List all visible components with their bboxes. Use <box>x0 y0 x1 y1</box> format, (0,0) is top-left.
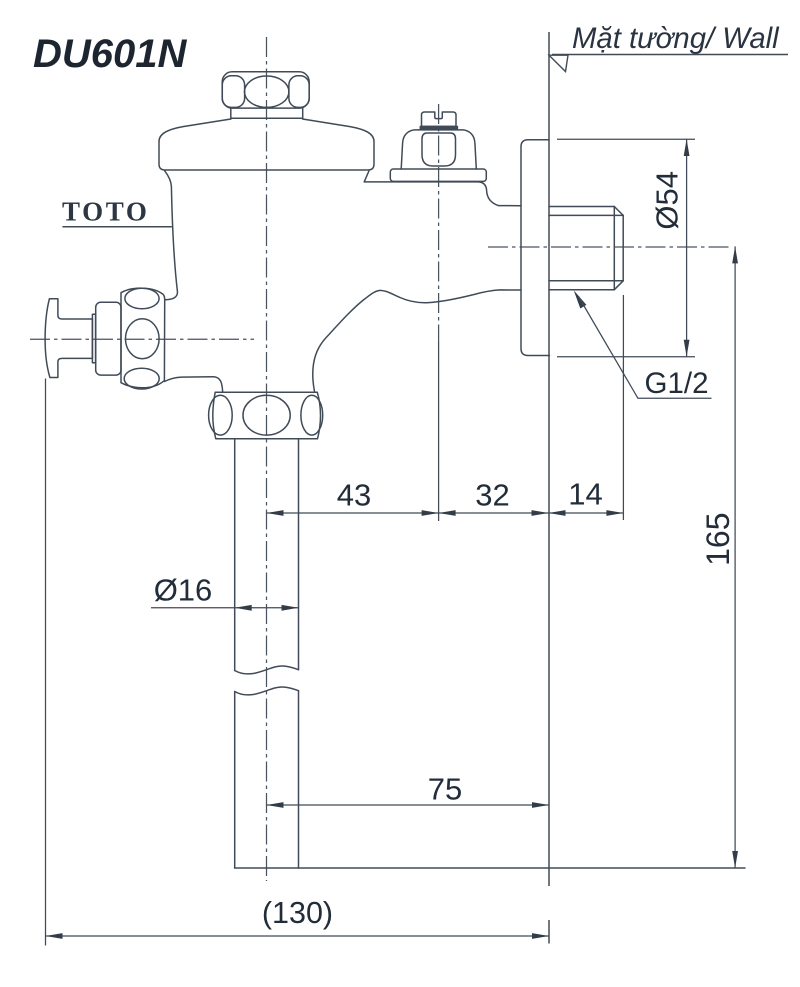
dim O54 vertical line <box>686 139 688 357</box>
arrow 43 left <box>267 510 284 516</box>
button valve barrel <box>121 288 165 388</box>
barrel bottom ellipse <box>124 368 159 389</box>
washer under hex nut <box>231 108 303 118</box>
lock nut outline <box>213 392 321 439</box>
dim line 43-32-14 <box>267 512 624 514</box>
hex nut right facet <box>289 76 309 108</box>
adjuster base flange <box>390 169 486 181</box>
svg-text:G1/2: G1/2 <box>645 367 709 400</box>
extension line screw axis to dim line <box>438 342 440 521</box>
dim (130) line <box>46 935 550 937</box>
arrow O54 down <box>684 340 690 357</box>
adjuster screw washer band <box>420 126 457 129</box>
barrel top ellipse <box>125 288 159 308</box>
dim O54 top extension line <box>557 138 695 140</box>
tailpipe lower segment right edge <box>298 691 300 868</box>
tailpipe upper segment right edge <box>298 439 300 670</box>
arrow 165 down <box>732 851 738 868</box>
nipple thread top line <box>549 214 623 216</box>
svg-text:14: 14 <box>568 477 602 512</box>
valve bonnet cap <box>159 119 374 170</box>
svg-text:Ø16: Ø16 <box>154 573 213 608</box>
arrow G12 leader <box>574 290 587 308</box>
body right shoulder ledge and S-curve to wall pipe top <box>364 171 521 206</box>
extension line button left edge down to (130) <box>45 379 47 946</box>
wall flange <box>521 140 550 356</box>
svg-text:43: 43 <box>337 478 371 513</box>
centerline adjuster screw axis <box>438 104 440 342</box>
nipple top chamfer <box>614 207 623 216</box>
tailpipe upper segment left edge <box>234 439 236 671</box>
arrow O16 right <box>282 605 299 611</box>
svg-text:Mặt tường/ Wall: Mặt tường/ Wall <box>572 22 780 55</box>
body neck left transition and left wall <box>165 171 178 300</box>
lock nut middle ellipse <box>243 395 290 435</box>
svg-text:(130): (130) <box>262 896 333 930</box>
hex nut outer <box>222 72 309 108</box>
nipple thread bottom line <box>549 280 623 282</box>
svg-text:32: 32 <box>475 478 509 513</box>
svg-text:Ø54: Ø54 <box>650 171 685 230</box>
centerline button axis <box>30 338 254 340</box>
arrow 130 right <box>532 933 549 939</box>
tailpipe bottom edge and 165 extension line <box>235 867 745 869</box>
dim 165 vertical line <box>734 246 736 868</box>
nipple outer bottom <box>549 289 614 291</box>
arrow 165 up <box>732 246 738 263</box>
tailpipe lower segment left edge <box>234 692 236 869</box>
adjuster bell window <box>422 133 456 166</box>
arrow O54 up <box>684 139 690 156</box>
nipple bottom chamfer <box>614 281 623 290</box>
adjuster packing bell <box>401 130 476 169</box>
leader line G1/2 <box>579 297 712 399</box>
barrel middle ellipse <box>126 319 160 359</box>
svg-text:DU601N: DU601N <box>33 32 188 76</box>
body sweep curve from lock nut to wall pipe bottom <box>313 290 521 392</box>
centerline vertical main axis <box>266 37 268 881</box>
threaded nipple outer top <box>549 206 614 208</box>
svg-text:TOTO: TOTO <box>62 197 149 227</box>
tailpipe upper break wave <box>235 666 299 674</box>
body undercurve from button barrel to lock nut <box>164 377 222 393</box>
dim O16 line <box>151 607 299 609</box>
svg-text:165: 165 <box>700 513 736 566</box>
arrow 43 right <box>422 510 439 516</box>
tailpipe lower break wave <box>235 687 299 695</box>
hex nut left facet <box>222 76 244 108</box>
nipple thread end vertical <box>613 207 615 290</box>
arrow 75 left <box>267 802 284 808</box>
hex nut middle facet <box>245 76 289 107</box>
wall label underline <box>552 54 788 56</box>
adjuster screw head with slot <box>422 112 457 126</box>
nipple right face <box>622 215 624 280</box>
lock nut left ellipse <box>209 395 233 435</box>
arrow 14 left <box>549 510 566 516</box>
TOTO underline <box>63 226 171 228</box>
dim O54 bottom extension line <box>557 356 695 358</box>
wall line <box>548 32 550 944</box>
arrow 32 left <box>439 510 456 516</box>
wall label open arrowhead <box>549 55 568 71</box>
lock nut right ellipse <box>301 395 323 435</box>
button collar washer <box>92 314 95 362</box>
svg-text:75: 75 <box>428 772 462 807</box>
push button face and stem <box>45 299 92 378</box>
button housing block <box>96 302 121 375</box>
arrow 75 right <box>532 802 549 808</box>
arrow 14 right <box>606 510 623 516</box>
arrow 32 right <box>532 510 549 516</box>
extension line for 14 at nipple face <box>622 295 624 520</box>
arrow 130 left <box>46 933 63 939</box>
arrow O16 left <box>235 605 252 611</box>
centerline wall pipe axis <box>488 246 731 248</box>
dim 75 line <box>267 804 550 806</box>
